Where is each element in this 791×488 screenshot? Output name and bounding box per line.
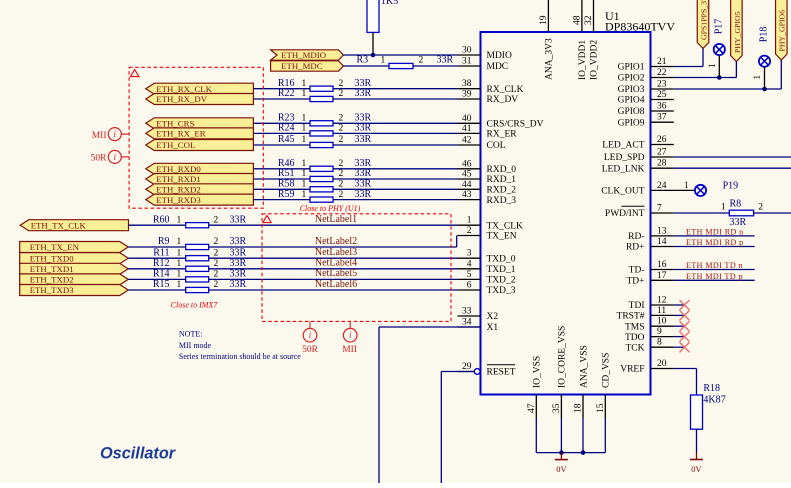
svg-text:TDI: TDI [629,301,645,311]
svg-text:P19: P19 [723,181,739,192]
svg-text:2: 2 [758,203,763,213]
svg-text:41: 41 [462,124,472,134]
svg-text:RX_CLK: RX_CLK [487,85,524,95]
svg-text:2: 2 [214,215,219,225]
svg-text:GPIO9: GPIO9 [618,118,645,128]
svg-text:34: 34 [462,318,472,328]
svg-text:TXD_2: TXD_2 [487,276,516,286]
svg-text:19: 19 [539,15,549,25]
svg-text:2: 2 [214,237,219,247]
svg-text:X2: X2 [487,312,499,322]
svg-text:IO_VDD1: IO_VDD1 [578,40,588,80]
svg-text:ETH MDI TD n: ETH MDI TD n [686,261,743,270]
svg-text:5: 5 [467,270,472,280]
svg-text:R22: R22 [278,88,295,99]
svg-text:0V: 0V [556,464,567,474]
svg-text:37: 37 [657,113,667,123]
svg-text:NetLabel6: NetLabel6 [315,279,357,290]
svg-text:MDIO: MDIO [487,51,512,61]
svg-text:4K87: 4K87 [703,395,725,406]
svg-text:TCK: TCK [626,343,645,353]
svg-text:1: 1 [302,190,307,200]
svg-text:ETH_RX_CLK: ETH_RX_CLK [156,84,212,94]
svg-text:1: 1 [467,216,472,226]
svg-text:LED_SPD: LED_SPD [604,153,645,163]
svg-text:2: 2 [339,89,344,99]
svg-text:2: 2 [339,124,344,134]
svg-text:COL: COL [487,141,506,151]
svg-text:46: 46 [462,159,472,169]
svg-text:NetLabel2: NetLabel2 [315,236,357,247]
svg-text:TXD_1: TXD_1 [487,265,516,275]
svg-text:RD-: RD- [628,232,644,242]
svg-text:LED_ACT: LED_ACT [602,141,644,151]
svg-text:11: 11 [657,306,666,316]
svg-text:2: 2 [214,248,219,258]
svg-text:PHY_GPIO5: PHY_GPIO5 [733,11,742,53]
svg-text:38: 38 [462,79,472,89]
svg-text:1: 1 [177,237,182,247]
svg-text:R60: R60 [153,214,170,225]
svg-text:1: 1 [177,270,182,280]
svg-text:33R: 33R [230,279,247,290]
svg-text:1: 1 [177,248,182,258]
svg-text:ETH_MDC: ETH_MDC [281,61,323,71]
svg-text:TXD_0: TXD_0 [487,254,516,264]
svg-text:4: 4 [467,259,472,269]
svg-text:1: 1 [177,280,182,290]
svg-text:MII: MII [342,345,357,355]
svg-text:Close to PHY (U1): Close to PHY (U1) [300,204,361,213]
svg-text:ETH_RX_ER: ETH_RX_ER [156,129,205,139]
svg-text:33R: 33R [230,247,247,258]
svg-text:42: 42 [462,136,472,146]
svg-text:1: 1 [381,56,386,66]
svg-text:ETH_RX_DV: ETH_RX_DV [156,94,207,104]
svg-text:2: 2 [339,159,344,169]
svg-text:TD-: TD- [629,266,645,276]
svg-text:ETH_RXD0: ETH_RXD0 [156,164,201,174]
svg-text:1: 1 [302,89,307,99]
svg-text:Series termination should be a: Series termination should be at source [179,352,301,361]
svg-text:29: 29 [462,362,472,372]
svg-text:CD_VSS: CD_VSS [602,353,612,388]
svg-text:TMS: TMS [625,322,645,332]
svg-text:36: 36 [657,102,667,112]
svg-text:R18: R18 [703,383,720,394]
svg-text:Close to IMX7: Close to IMX7 [171,301,219,310]
svg-text:MDC: MDC [487,62,509,72]
svg-text:R8: R8 [730,198,742,209]
svg-text:R59: R59 [278,189,295,200]
svg-text:44: 44 [462,180,472,190]
svg-text:33R: 33R [355,123,372,134]
svg-text:1: 1 [302,79,307,89]
svg-text:2: 2 [339,79,344,89]
svg-text:RXD_3: RXD_3 [487,196,517,206]
svg-text:RX_DV: RX_DV [487,95,519,105]
svg-text:40: 40 [462,114,472,124]
svg-text:DP83640TVV: DP83640TVV [605,20,675,34]
svg-text:ETH_TXD0: ETH_TXD0 [30,253,75,263]
svg-text:RXD_0: RXD_0 [487,165,517,175]
svg-text:P18: P18 [759,27,770,43]
svg-text:ETH_RXD3: ETH_RXD3 [156,195,201,205]
svg-text:TRST#: TRST# [617,312,645,322]
svg-text:NetLabel3: NetLabel3 [315,247,357,258]
svg-text:43: 43 [462,190,472,200]
svg-text:33R: 33R [355,189,372,200]
svg-text:ETH_MDIO: ETH_MDIO [281,50,326,60]
svg-text:TX_EN: TX_EN [487,232,517,242]
svg-text:33: 33 [462,307,472,317]
svg-text:R9: R9 [158,236,170,247]
svg-text:ETH_TXD3: ETH_TXD3 [30,285,75,295]
svg-text:TD+: TD+ [626,277,644,287]
svg-text:Oscillator: Oscillator [100,445,177,463]
svg-text:2: 2 [214,259,219,269]
svg-text:ETH_RXD1: ETH_RXD1 [156,174,200,184]
svg-text:R12: R12 [153,258,170,269]
svg-text:33R: 33R [437,55,454,66]
svg-text:GPIO3: GPIO3 [618,85,645,95]
svg-text:3: 3 [467,249,472,259]
svg-text:35: 35 [552,403,562,413]
svg-text:6: 6 [467,281,472,291]
svg-text:1: 1 [707,64,717,69]
svg-text:10: 10 [657,317,667,327]
svg-text:GPIO1: GPIO1 [618,63,645,73]
svg-text:1: 1 [302,135,307,145]
svg-text:1: 1 [302,169,307,179]
svg-text:1: 1 [721,202,726,212]
svg-text:2: 2 [419,56,424,66]
svg-text:1: 1 [302,114,307,124]
svg-text:45: 45 [462,170,472,180]
svg-text:TX_CLK: TX_CLK [487,221,524,231]
svg-text:VREF: VREF [620,365,644,375]
svg-text:RXD_2: RXD_2 [487,186,517,196]
svg-text:ETH MDI TD p: ETH MDI TD p [686,272,743,281]
svg-text:ETH_TX_EN: ETH_TX_EN [30,242,80,252]
svg-text:ETH_COL: ETH_COL [156,140,195,150]
svg-text:9: 9 [657,327,662,337]
svg-text:30: 30 [462,46,472,56]
svg-text:GPIO4: GPIO4 [618,96,645,106]
svg-text:33R: 33R [230,236,247,247]
svg-text:RX_ER: RX_ER [487,130,518,140]
svg-text:X1: X1 [487,323,499,333]
svg-text:ETH_TX_CLK: ETH_TX_CLK [31,220,87,230]
svg-text:50R: 50R [91,154,108,164]
svg-text:NetLabel1: NetLabel1 [315,214,357,225]
svg-text:MII mode: MII mode [179,341,212,350]
svg-text:ANA_3V3: ANA_3V3 [545,38,555,80]
svg-text:33R: 33R [230,269,247,280]
svg-text:TDO: TDO [625,333,645,343]
svg-text:13: 13 [657,226,667,236]
svg-text:1K5: 1K5 [381,0,398,7]
svg-text:24: 24 [657,181,667,191]
svg-text:NetLabel5: NetLabel5 [315,268,357,279]
svg-text:MII: MII [92,131,107,141]
svg-text:1: 1 [177,215,182,225]
svg-text:R45: R45 [278,134,295,145]
svg-text:33R: 33R [230,214,247,225]
svg-text:22: 22 [657,68,667,78]
svg-text:2: 2 [467,226,472,236]
svg-text:ETH_TXD2: ETH_TXD2 [30,275,74,285]
svg-text:1: 1 [177,259,182,269]
svg-text:16: 16 [657,260,667,270]
svg-text:R24: R24 [278,123,295,134]
svg-text:2: 2 [339,135,344,145]
svg-text:NetLabel4: NetLabel4 [315,258,357,269]
svg-text:0V: 0V [691,464,702,474]
svg-text:TXD_3: TXD_3 [487,286,516,296]
svg-text:2: 2 [339,114,344,124]
svg-text:NOTE:: NOTE: [179,330,203,339]
svg-text:ETH MDI RD n: ETH MDI RD n [686,227,744,236]
svg-text:33R: 33R [230,258,247,269]
svg-text:26: 26 [657,135,667,145]
svg-text:ANA_VSS: ANA_VSS [579,345,589,388]
svg-text:1: 1 [302,180,307,190]
svg-text:ETH MDI RD p: ETH MDI RD p [686,238,744,247]
svg-text:20: 20 [657,359,667,369]
svg-text:8: 8 [657,338,662,348]
svg-text:2: 2 [339,190,344,200]
svg-text:R11: R11 [153,247,169,258]
svg-text:27: 27 [657,148,667,158]
svg-text:1: 1 [302,124,307,134]
svg-text:PWD/INT: PWD/INT [605,209,645,219]
svg-text:IO_VDD2: IO_VDD2 [590,40,600,80]
svg-text:2: 2 [214,280,219,290]
svg-text:14: 14 [657,237,667,247]
svg-text:RXD_1: RXD_1 [487,175,517,185]
svg-text:2: 2 [339,169,344,179]
svg-text:17: 17 [657,271,667,281]
svg-text:1: 1 [684,180,689,190]
svg-text:ETH_RXD2: ETH_RXD2 [156,185,200,195]
svg-text:39: 39 [462,90,472,100]
svg-text:47: 47 [527,403,537,413]
svg-text:R14: R14 [153,269,170,280]
svg-text:P17: P17 [714,19,725,35]
svg-text:12: 12 [657,296,667,306]
svg-text:28: 28 [657,159,667,169]
svg-text:32: 32 [584,15,594,25]
svg-text:1: 1 [302,159,307,169]
svg-text:50R: 50R [302,345,319,355]
svg-text:R3: R3 [357,55,369,66]
svg-text:PHY_GPIO6: PHY_GPIO6 [778,10,787,52]
svg-text:31: 31 [462,57,472,67]
svg-text:GPIO8: GPIO8 [618,107,645,117]
svg-text:48: 48 [572,15,582,25]
svg-text:15: 15 [596,403,606,413]
svg-text:GPIO2: GPIO2 [618,74,645,84]
svg-text:33R: 33R [355,88,372,99]
svg-text:GPS1PPS_3V: GPS1PPS_3V [699,0,708,40]
svg-text:RESET: RESET [487,368,516,378]
svg-text:33R: 33R [355,134,372,145]
svg-text:21: 21 [657,57,667,67]
svg-text:2: 2 [339,180,344,190]
svg-text:23: 23 [657,80,667,90]
svg-text:25: 25 [657,90,667,100]
svg-text:2: 2 [214,270,219,280]
svg-text:R15: R15 [153,279,170,290]
svg-text:IO_VSS: IO_VSS [533,356,543,388]
svg-text:18: 18 [574,403,584,413]
svg-text:CRS/CRS_DV: CRS/CRS_DV [487,120,544,130]
svg-text:7: 7 [657,204,662,214]
svg-text:RD+: RD+ [626,243,645,253]
svg-text:LED_LNK: LED_LNK [602,164,645,174]
svg-text:ETH_TXD1: ETH_TXD1 [30,264,74,274]
svg-text:CLK_OUT: CLK_OUT [601,187,644,197]
svg-text:ETH_CRS: ETH_CRS [156,119,194,129]
svg-text:1: 1 [752,75,762,80]
svg-text:IO_CORE_VSS: IO_CORE_VSS [558,326,568,388]
